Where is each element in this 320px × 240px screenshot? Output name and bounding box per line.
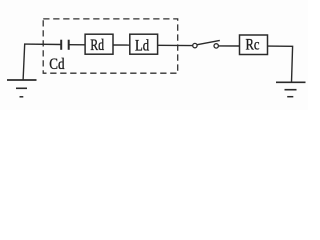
wire: switch to Rc — [218, 45, 239, 47]
wire: Rd to Ld — [113, 44, 130, 46]
wire: Rc to right corner and vertical drop — [268, 46, 293, 82]
wire: left vertical drop to ground — [23, 44, 25, 80]
svg-text:Rd: Rd — [90, 37, 104, 54]
capacitor Cd — [61, 40, 68, 50]
switch left contact — [193, 43, 197, 47]
svg-text:Rc: Rc — [246, 37, 260, 54]
wire: top-left horizontal to capacitor — [24, 43, 61, 45]
wire: capacitor to Rd — [69, 44, 85, 46]
ground (left) — [7, 80, 37, 97]
switch right contact — [214, 44, 218, 48]
svg-text:Ld: Ld — [135, 37, 149, 54]
resistor Rd (box) — [85, 34, 113, 54]
switch arm (open) — [197, 40, 220, 44]
wire: Ld to switch — [158, 44, 193, 46]
resistor Rc (box) — [240, 35, 268, 55]
ground (right) — [276, 82, 306, 96]
dashed network boundary box — [43, 19, 178, 73]
svg-text:Cd: Cd — [49, 56, 64, 73]
inductor Ld (box) — [130, 34, 158, 54]
